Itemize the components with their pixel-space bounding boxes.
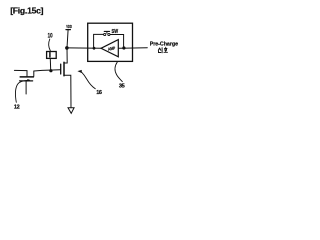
leader for label 16 <box>81 72 95 89</box>
leader for label 35 <box>115 62 122 82</box>
hangul s (siot) <box>158 48 161 50</box>
leader for label 10 <box>49 39 51 51</box>
leader 12 arrowhead <box>27 79 30 82</box>
hangul i (vertical) <box>161 48 163 53</box>
node A junction dot <box>49 69 52 72</box>
transistor Q12 drain stub <box>14 70 27 76</box>
svg-text:Pre-Charge: Pre-Charge <box>150 41 178 47</box>
switch SW control stem <box>106 32 108 34</box>
leader 16 arrowhead <box>77 70 81 73</box>
svg-text:VDD: VDD <box>66 24 72 29</box>
leader for label 12 <box>16 80 28 102</box>
transistor Q16 gate bar <box>60 64 62 74</box>
wire: feedback loop left/top <box>94 34 104 48</box>
transistor Q12 source lead <box>33 71 35 76</box>
op-amp AMP triangle <box>101 40 118 57</box>
node C junction dot (feedback tap) <box>93 47 96 50</box>
svg-text:16: 16 <box>96 90 102 96</box>
svg-text:12: 12 <box>14 105 20 111</box>
transistor Q12 gate bar <box>20 80 33 82</box>
switch SW left contact <box>104 33 106 35</box>
wire: amp output to Pre-Charge terminal <box>119 47 147 49</box>
hangul o (vowel) <box>164 51 168 53</box>
wire: cell box to node A <box>49 59 51 70</box>
wire: VDD rail <box>64 30 68 63</box>
switch SW control bar <box>104 30 109 32</box>
output open arrowhead <box>68 108 74 114</box>
amp unit box 35 <box>88 23 133 61</box>
wire: node B to amp input <box>69 47 102 49</box>
mark inside cell box <box>49 52 51 57</box>
transistor Q16 channel bar <box>63 62 65 76</box>
svg-text:[Fig.15c]: [Fig.15c] <box>10 5 43 15</box>
node B junction dot on VDD rail <box>65 46 69 50</box>
VDD terminal bar <box>66 29 70 31</box>
hangul h (hieut) <box>165 47 168 48</box>
wire: feedback loop right side <box>110 35 124 48</box>
node D junction dot (amp output) <box>122 46 125 49</box>
switch SW right contact <box>108 33 110 35</box>
svg-text:35: 35 <box>119 84 125 90</box>
transistor Q16 source lead <box>65 75 71 107</box>
label signal (Hangul sin-ho) drawn as vector strokes <box>158 47 167 53</box>
wire: gate line from Q12 to Q16 gate <box>34 70 60 71</box>
transistor Q12 channel bar <box>20 76 33 78</box>
svg-text:10: 10 <box>48 34 53 40</box>
hangul n (nieun) <box>159 51 161 53</box>
memory cell box 10 <box>47 52 57 59</box>
transistor Q12 gate stem <box>25 81 27 94</box>
